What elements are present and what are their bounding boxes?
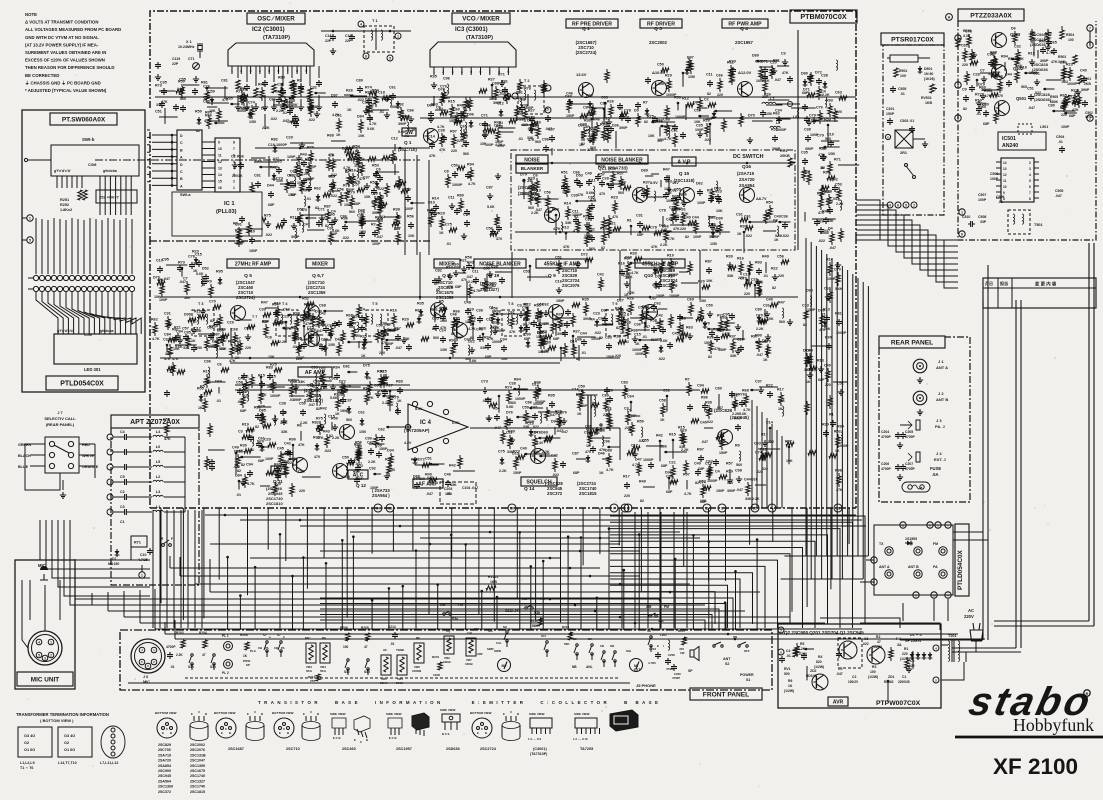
svg-text:C10: C10 (156, 259, 163, 263)
svg-text:(AT 13.2V POWER SUPPLY) IF: (AT 13.2V POWER SUPPLY) IF MEA- (25, 42, 99, 47)
svg-text:1 2 ···· 8 9: 1 2 ···· 8 9 (528, 737, 542, 741)
svg-text:C91: C91 (327, 227, 334, 231)
svg-text:C29: C29 (286, 136, 293, 140)
svg-text:82: 82 (616, 326, 620, 330)
svg-text:C74: C74 (248, 101, 256, 105)
svg-text:IC3 (C3001): IC3 (C3001) (455, 27, 488, 33)
svg-text:Q 5: Q 5 (244, 273, 252, 279)
svg-text:GND WITH DC VTVM AT NO SIGN: GND WITH DC VTVM AT NO SIGNAL (25, 35, 99, 40)
svg-text:R38: R38 (393, 208, 400, 212)
svg-text:68P: 68P (700, 500, 707, 504)
svg-text:R80: R80 (457, 194, 464, 198)
if row top texture (435, 252, 784, 304)
svg-text:1S1555: 1S1555 (905, 537, 917, 541)
svg-text:(PLL03): (PLL03) (216, 209, 237, 215)
svg-text:68P: 68P (455, 285, 462, 289)
svg-text:T 2: T 2 (524, 79, 530, 83)
svg-text:C15: C15 (328, 415, 335, 419)
svg-text:4.7K: 4.7K (473, 289, 481, 293)
svg-text:C36: C36 (781, 215, 788, 219)
svg-text:C40: C40 (766, 298, 773, 302)
svg-text:220: 220 (778, 274, 784, 278)
svg-text:1: 1 (141, 574, 143, 578)
svg-text:2SA564: 2SA564 (158, 779, 171, 783)
svg-text:R501: R501 (899, 69, 907, 73)
vco texture (427, 73, 555, 159)
svg-text:C3: C3 (238, 430, 243, 434)
svg-text:C92: C92 (369, 467, 376, 471)
svg-text:ALC: ALC (353, 472, 364, 478)
svg-text:10: 10 (932, 593, 936, 597)
svg-text:.047: .047 (736, 488, 743, 492)
svg-text:C505: C505 (1055, 189, 1063, 193)
svg-text:C19: C19 (328, 175, 335, 179)
svg-text:100P: 100P (697, 201, 706, 205)
svg-text:C61: C61 (389, 86, 396, 90)
svg-text:82: 82 (640, 499, 644, 503)
svg-text:R73: R73 (375, 216, 382, 220)
svg-text:R46: R46 (534, 381, 541, 385)
transistor Q2 (576, 72, 594, 98)
svg-text:ON: ON (733, 635, 737, 639)
logo Hobbyfunk (1013, 715, 1094, 735)
svg-text:1000P: 1000P (270, 394, 281, 398)
if transistors (231, 303, 658, 347)
svg-text:1K: 1K (806, 380, 811, 384)
svg-text:13: 13 (1003, 167, 1007, 171)
svg-text:R53: R53 (372, 164, 379, 168)
left mid texture (151, 318, 160, 342)
svg-text:R9: R9 (207, 280, 212, 284)
svg-text:12: 12 (218, 160, 222, 164)
svg-text:R72: R72 (540, 330, 547, 334)
svg-text:47K: 47K (509, 330, 516, 334)
svg-text:R94: R94 (1001, 55, 1009, 59)
svg-text:C10 1000P: C10 1000P (268, 143, 287, 147)
svg-text:2.2K: 2.2K (499, 469, 507, 473)
svg-text:D62: D62 (696, 182, 703, 186)
logo rule (0, 0, 1, 1)
svg-text:47/10: 47/10 (1085, 115, 1093, 119)
svg-text:C94: C94 (246, 463, 254, 467)
svg-text:(TA7310P): (TA7310P) (530, 752, 548, 756)
svg-text:C79: C79 (809, 114, 816, 118)
svg-text:100P: 100P (978, 198, 987, 202)
svg-text:BOTTOM VIEW: BOTTOM VIEW (272, 711, 294, 715)
svg-text:10.24MHz: 10.24MHz (178, 45, 195, 49)
svg-text:D72: D72 (815, 71, 822, 75)
svg-text:1K: 1K (788, 684, 793, 688)
svg-text:33K: 33K (679, 445, 686, 449)
svg-text:150P: 150P (556, 299, 565, 303)
svg-text:680K: 680K (1050, 100, 1059, 104)
wire far right pair (0, 0, 1, 1)
transistor Q502 (992, 57, 1049, 80)
svg-text:SIDE VIEW: SIDE VIEW (386, 712, 402, 716)
svg-text:RF: RF (416, 636, 420, 640)
svg-text:1: 1 (397, 34, 399, 38)
svg-text:R205: R205 (361, 626, 369, 630)
package label 2SC1687 (228, 747, 244, 751)
svg-text:B: B (170, 731, 172, 735)
coil T10 (578, 389, 602, 431)
svg-text:10K: 10K (648, 134, 655, 138)
svg-text:C80: C80 (755, 308, 762, 312)
svg-text:8.9V: 8.9V (650, 181, 658, 185)
svg-text:560: 560 (1021, 85, 1027, 89)
squelch texture (481, 378, 614, 478)
svg-text:4.7K: 4.7K (606, 468, 614, 472)
svg-text:68P: 68P (666, 490, 673, 494)
right board texture (801, 60, 844, 250)
svg-text:R35: R35 (430, 75, 437, 79)
svg-text:R504: R504 (1066, 33, 1074, 37)
label VCO/MIXER (452, 13, 510, 24)
svg-text:1000P: 1000P (591, 337, 602, 341)
svg-text:R23: R23 (192, 250, 199, 254)
svg-text:3: 3 (1029, 167, 1031, 171)
svg-text:D88: D88 (605, 449, 612, 453)
svg-text:47K: 47K (563, 245, 570, 249)
svg-text:R84: R84 (333, 366, 341, 370)
svg-text:2SC2002: 2SC2002 (190, 743, 205, 747)
svg-text:SIDE VIEW: SIDE VIEW (574, 712, 590, 716)
rf upper texture (657, 52, 789, 100)
label PTZZ033A0X (958, 9, 1024, 21)
svg-text:C8: C8 (267, 336, 272, 340)
svg-text:4: 4 (360, 22, 362, 26)
svg-text:.047: .047 (466, 275, 473, 279)
svg-text:5KA: 5KA (306, 669, 313, 673)
svg-text:R40: R40 (1039, 40, 1046, 44)
svg-text:2.2K: 2.2K (732, 412, 740, 416)
svg-text:C64: C64 (627, 395, 635, 399)
svg-text:100: 100 (900, 74, 906, 78)
svg-text:XF 2100: XF 2100 (993, 754, 1078, 779)
nb texture (520, 165, 723, 252)
svg-text:* ADJUSTED (TYPICAL VALUE S: * ADJUSTED (TYPICAL VALUE SHOWN) (25, 88, 107, 93)
transistor Q15 (672, 181, 695, 203)
svg-text:C3: C3 (120, 505, 125, 509)
svg-text:D78: D78 (534, 431, 541, 435)
svg-text:E C B: E C B (333, 736, 340, 740)
svg-text:R52: R52 (345, 169, 352, 173)
svg-text:1000P: 1000P (643, 458, 654, 462)
svg-text:MIXER: MIXER (312, 261, 328, 267)
svg-text:47K: 47K (673, 227, 680, 231)
svg-text:.01: .01 (763, 274, 768, 278)
svg-text:7: 7 (613, 507, 615, 511)
svg-text:47K: 47K (782, 71, 789, 75)
svg-text:R76: R76 (738, 393, 745, 397)
svg-text:D70: D70 (703, 322, 710, 326)
svg-text:500: 500 (784, 672, 790, 676)
svg-text:2.2K: 2.2K (542, 450, 550, 454)
svg-text:C95: C95 (723, 313, 730, 317)
transistor Q21 (633, 181, 659, 203)
svg-text:100: 100 (870, 670, 876, 674)
svg-text:R73: R73 (513, 450, 520, 454)
package 2SC1957 iso (412, 713, 429, 730)
svg-text:C76: C76 (816, 106, 823, 110)
svg-text:C: C (360, 740, 362, 744)
wire drops from board (0, 0, 1, 1)
svg-text:C91: C91 (235, 223, 242, 227)
svg-text:RV201: RV201 (488, 575, 498, 579)
svg-text:220: 220 (615, 354, 621, 358)
svg-text:.022: .022 (1034, 91, 1041, 95)
svg-text:68P: 68P (1069, 114, 1076, 118)
svg-text:Q 4: Q 4 (740, 26, 748, 32)
svg-text:R84: R84 (837, 425, 845, 429)
wire verticals to lower row (0, 0, 1, 1)
svg-text:R37: R37 (643, 181, 650, 185)
svg-text:C98: C98 (735, 469, 742, 473)
svg-text:82: 82 (255, 425, 259, 429)
svg-text:J 4: J 4 (936, 451, 942, 456)
svg-text:T1 ∼ T6: T1 ∼ T6 (20, 766, 33, 770)
svg-text:R5: R5 (439, 300, 444, 304)
wire lower bus (549, 567, 737, 641)
svg-text:CT1: CT1 (188, 57, 195, 61)
svg-text:4: 4 (889, 203, 891, 207)
svg-text:33P: 33P (980, 220, 987, 224)
svg-text:1000P: 1000P (666, 93, 677, 97)
svg-text:.01: .01 (657, 139, 662, 143)
svg-text:C70: C70 (209, 300, 216, 304)
svg-text:5.6K: 5.6K (775, 234, 783, 238)
svg-text:.01: .01 (518, 137, 523, 141)
svg-text:1K: 1K (191, 339, 196, 343)
svg-text:.022: .022 (818, 239, 825, 243)
svg-text:.047: .047 (312, 385, 319, 389)
svg-text:R33: R33 (479, 327, 486, 331)
svg-text:C: C (166, 727, 168, 731)
package 2SC1957 side view (386, 712, 402, 740)
package 2SC460 side view (330, 712, 346, 740)
svg-text:47: 47 (877, 640, 881, 644)
wire row rails (249, 296, 652, 360)
svg-text:560: 560 (180, 97, 186, 101)
svg-text:1/50: 1/50 (359, 430, 366, 434)
svg-text:R39: R39 (726, 470, 733, 474)
svg-text:C5: C5 (838, 667, 842, 671)
svg-text:IC 4: IC 4 (420, 420, 432, 426)
svg-text:J 1: J 1 (938, 359, 944, 364)
svg-text:220: 220 (245, 346, 251, 350)
svg-text:C15: C15 (634, 333, 641, 337)
svg-text:.022: .022 (706, 420, 713, 424)
svg-text:(2SA719: (2SA719 (737, 171, 755, 176)
transistor base info title (258, 700, 658, 705)
svg-text:68P: 68P (240, 409, 247, 413)
svg-text:1K: 1K (397, 399, 402, 403)
svg-text:EXCESS OF ±20% OF VALUES SHOWN: EXCESS OF ±20% OF VALUES SHOWN (25, 58, 105, 63)
svg-text:R35: R35 (582, 298, 589, 302)
svg-text:R15: R15 (448, 100, 455, 104)
svg-text:.01: .01 (170, 665, 175, 669)
svg-text:C46: C46 (444, 473, 451, 477)
svg-text:10: 10 (218, 147, 222, 151)
svg-text:C68: C68 (231, 328, 238, 332)
svg-text:.047: .047 (1028, 106, 1035, 110)
svg-text:2SC945: 2SC945 (158, 774, 171, 778)
svg-text:560: 560 (463, 152, 469, 156)
svg-text:J 3: J 3 (936, 418, 942, 423)
svg-text:56K: 56K (532, 624, 539, 628)
svg-text:FRONT PANEL: FRONT PANEL (703, 691, 749, 698)
svg-text:12: 12 (1003, 173, 1007, 177)
svg-text:100/2V: 100/2V (848, 680, 859, 684)
svg-text:R16: R16 (737, 257, 744, 261)
svg-text:gfedcba: gfedcba (103, 169, 118, 173)
svg-text:560: 560 (528, 206, 534, 210)
svg-text:6: 6 (961, 232, 963, 236)
svg-text:R210: R210 (562, 625, 570, 629)
svg-text:2SC1740: 2SC1740 (190, 785, 205, 789)
label RF PRE DRIVER (566, 19, 618, 28)
svg-text:R13: R13 (446, 266, 453, 270)
svg-text:R26: R26 (607, 100, 614, 104)
svg-text:9: 9 (218, 141, 220, 145)
svg-text:270: 270 (310, 679, 315, 683)
svg-text:22P: 22P (172, 62, 179, 66)
svg-text:10K: 10K (301, 338, 308, 342)
svg-text:T 7: T 7 (252, 315, 257, 319)
svg-text:R27: R27 (488, 78, 495, 82)
label IC2 (252, 27, 290, 41)
svg-text:S4d: S4d (364, 670, 370, 674)
svg-text:1K: 1K (584, 125, 589, 129)
svg-text:C28: C28 (602, 177, 609, 181)
svg-text:C62: C62 (654, 302, 661, 306)
rv3 (780, 149, 794, 164)
svg-text:8: 8 (233, 141, 235, 145)
svg-text:1K: 1K (620, 331, 625, 335)
svg-text:4700P: 4700P (672, 676, 680, 680)
svg-text:82: 82 (492, 284, 496, 288)
wire lamp board links (0, 0, 1, 1)
svg-text:C83: C83 (621, 381, 628, 385)
svg-text:C37: C37 (755, 380, 762, 384)
svg-text:100P: 100P (372, 242, 381, 246)
svg-text:R27: R27 (573, 330, 580, 334)
label PTLD054C0X left (46, 376, 118, 390)
svg-text:390P: 390P (398, 122, 407, 126)
svg-text:10K: 10K (480, 142, 487, 146)
svg-text:4700P: 4700P (905, 467, 916, 471)
svg-text:820: 820 (816, 660, 822, 664)
switch SW1-b (24, 137, 139, 176)
svg-text:D84: D84 (235, 474, 243, 478)
svg-text:R38: R38 (705, 401, 712, 405)
svg-text:R41: R41 (274, 463, 281, 467)
svg-text:C78: C78 (965, 30, 972, 34)
svg-text:C78: C78 (188, 255, 195, 259)
svg-text:.022: .022 (270, 117, 277, 121)
svg-text:C38: C38 (804, 128, 811, 132)
crystal X1 (172, 40, 202, 69)
svg-text:C9: C9 (962, 88, 967, 92)
svg-text:R3: R3 (872, 665, 876, 669)
svg-text:C63: C63 (835, 91, 842, 95)
svg-text:CB: CB (600, 644, 604, 648)
svg-text:C50: C50 (342, 456, 349, 460)
svg-text:R35: R35 (417, 302, 424, 306)
svg-text:AN240: AN240 (1002, 143, 1018, 149)
svg-text:RD5.6E: RD5.6E (806, 674, 817, 678)
svg-text:5: 5 (905, 203, 907, 207)
svg-text:3: 3 (233, 173, 235, 177)
svg-text:C206: C206 (881, 462, 889, 466)
microphone unit (15, 560, 75, 689)
label RF DRIVER (640, 19, 682, 28)
svg-text:C508: C508 (978, 215, 986, 219)
svg-text:S7c: S7c (541, 634, 547, 638)
svg-text:1000P: 1000P (237, 109, 248, 113)
svg-text:R19: R19 (242, 423, 249, 427)
svg-text:13.6V: 13.6V (576, 72, 587, 77)
svg-text:252 ×8K×7: 252 ×8K×7 (99, 195, 120, 200)
svg-text:C39: C39 (259, 308, 266, 312)
svg-text:C69: C69 (494, 124, 501, 128)
svg-text:C81: C81 (254, 174, 261, 178)
svg-text:.022: .022 (377, 187, 384, 191)
svg-text:82: 82 (644, 120, 648, 124)
svg-text:C71: C71 (454, 266, 461, 270)
svg-text:C16: C16 (555, 280, 562, 284)
label AVR Q15 (672, 157, 696, 183)
label OSC/MIXER (247, 13, 305, 24)
svg-text:C12: C12 (391, 137, 398, 141)
svg-text:B: B (517, 712, 519, 716)
svg-text:IC501: IC501 (1002, 136, 1016, 142)
wire vertical bundles right (0, 0, 1, 1)
svg-text:C5: C5 (120, 475, 125, 479)
svg-text:35: 35 (388, 507, 392, 511)
svg-text:100P: 100P (635, 352, 644, 356)
svg-text:R39: R39 (313, 436, 320, 440)
svg-text:4.7K: 4.7K (437, 125, 445, 129)
svg-text:R29: R29 (729, 60, 736, 64)
if row texture B (431, 297, 785, 364)
svg-text:C95: C95 (162, 258, 169, 262)
svg-text:C36: C36 (634, 323, 641, 327)
svg-text:R22: R22 (771, 267, 778, 271)
svg-text:AF AMP: AF AMP (418, 481, 438, 487)
svg-text:1/50: 1/50 (545, 210, 552, 214)
svg-text:R62: R62 (773, 112, 780, 116)
svg-text:C55: C55 (163, 418, 170, 422)
svg-text:4: 4 (38, 640, 40, 644)
svg-text:33K: 33K (281, 430, 288, 434)
svg-text:R5: R5 (800, 642, 804, 646)
svg-text:R2: R2 (876, 635, 880, 639)
lamp board pins (871, 522, 951, 598)
svg-text:R40: R40 (734, 417, 741, 421)
PTSR components (885, 55, 936, 208)
svg-text:C31: C31 (763, 304, 770, 308)
svg-text:.01: .01 (216, 399, 221, 403)
svg-text:BLUE: BLUE (18, 465, 29, 469)
transistor Q4 (738, 70, 753, 97)
svg-text:150P: 150P (716, 489, 725, 493)
wire bus to AVR (0, 0, 1, 1)
svg-text:ON: ON (610, 644, 614, 648)
svg-text:RV501: RV501 (921, 96, 932, 100)
svg-text:S2: S2 (725, 662, 729, 666)
svg-text:L3: L3 (156, 490, 160, 494)
